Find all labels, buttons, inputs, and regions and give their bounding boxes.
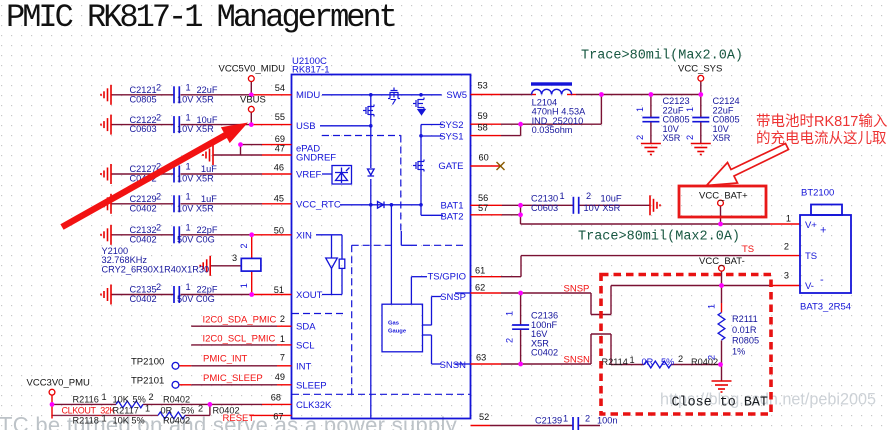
svg-text:1: 1 xyxy=(505,311,515,316)
svg-text:1: 1 xyxy=(145,404,150,414)
svg-text:GATE: GATE xyxy=(438,161,463,172)
svg-text:10V X5R: 10V X5R xyxy=(177,94,214,104)
svg-text:SNSN: SNSN xyxy=(440,360,467,371)
svg-text:68: 68 xyxy=(271,393,281,403)
svg-text:XIN: XIN xyxy=(296,230,312,241)
svg-text:R2116: R2116 xyxy=(73,394,99,404)
svg-text:1: 1 xyxy=(186,162,191,172)
svg-text:56: 56 xyxy=(478,193,488,203)
svg-text:2: 2 xyxy=(784,242,789,252)
svg-text:10K: 10K xyxy=(113,394,130,404)
svg-text:SYS1: SYS1 xyxy=(439,132,463,143)
svg-text:TS/GPIO: TS/GPIO xyxy=(427,271,466,282)
svg-text:R0402: R0402 xyxy=(163,394,190,404)
svg-text:67: 67 xyxy=(273,412,283,422)
svg-text:59: 59 xyxy=(478,111,488,121)
svg-text:0R: 0R xyxy=(161,406,173,416)
svg-text:63: 63 xyxy=(476,353,486,363)
svg-text:2: 2 xyxy=(156,282,161,292)
svg-text:XOUT: XOUT xyxy=(296,290,323,301)
svg-text:C0402: C0402 xyxy=(531,348,558,358)
svg-text:V+: V+ xyxy=(805,220,817,231)
svg-text:VCC_BAT+: VCC_BAT+ xyxy=(699,191,748,202)
svg-text:INT: INT xyxy=(296,361,312,372)
svg-text:2: 2 xyxy=(685,135,695,140)
svg-text:CRY2_6R90X1R40X1R30: CRY2_6R90X1R40X1R30 xyxy=(102,264,210,274)
svg-text:2: 2 xyxy=(678,354,683,364)
svg-text:10V X5R: 10V X5R xyxy=(177,203,214,213)
svg-text:SW5: SW5 xyxy=(446,90,467,101)
svg-text:BT2100: BT2100 xyxy=(801,188,834,199)
svg-text:60: 60 xyxy=(479,153,489,163)
svg-text:带电池时RK817输入: 带电池时RK817输入 xyxy=(756,113,887,130)
svg-text:C0402: C0402 xyxy=(130,234,157,244)
svg-text:CLKOUT_32K: CLKOUT_32K xyxy=(62,406,116,416)
svg-text:0R: 0R xyxy=(642,357,654,367)
svg-text:62: 62 xyxy=(475,283,485,293)
svg-text:BAT3_2R54: BAT3_2R54 xyxy=(800,302,851,313)
svg-text:58: 58 xyxy=(478,123,488,133)
svg-text:1: 1 xyxy=(186,83,191,93)
svg-text:1: 1 xyxy=(685,107,695,112)
svg-text:TP2100: TP2100 xyxy=(131,356,164,367)
svg-text:SNSN: SNSN xyxy=(564,355,591,366)
svg-text:+: + xyxy=(820,225,826,237)
svg-text:2: 2 xyxy=(156,83,161,93)
svg-text:0.01R: 0.01R xyxy=(732,325,757,335)
svg-text:Trace>80mil(Max2.0A): Trace>80mil(Max2.0A) xyxy=(581,49,743,64)
svg-text:5%: 5% xyxy=(133,394,146,404)
svg-text:V-: V- xyxy=(805,281,814,292)
svg-text:I2C0_SCL_PMIC: I2C0_SCL_PMIC xyxy=(203,334,276,345)
svg-text:5%: 5% xyxy=(181,406,194,416)
svg-text:SNSP: SNSP xyxy=(564,284,590,295)
svg-text:1: 1 xyxy=(563,414,568,424)
svg-text:2: 2 xyxy=(156,192,161,202)
svg-text:1: 1 xyxy=(707,304,717,309)
svg-text:10V X5R: 10V X5R xyxy=(177,124,214,134)
svg-text:VCC_BAT-: VCC_BAT- xyxy=(699,256,745,267)
svg-text:R2118: R2118 xyxy=(73,416,99,426)
svg-text:3: 3 xyxy=(232,253,237,263)
svg-text:的充电电流从这儿取: 的充电电流从这儿取 xyxy=(756,130,887,147)
svg-text:GNDREF: GNDREF xyxy=(296,153,336,164)
svg-text:1: 1 xyxy=(186,223,191,233)
svg-text:1: 1 xyxy=(560,191,565,201)
svg-text:100n: 100n xyxy=(597,416,617,426)
svg-text:2: 2 xyxy=(505,338,515,343)
svg-text:1: 1 xyxy=(786,214,791,224)
svg-text:51: 51 xyxy=(274,285,284,295)
svg-text:1: 1 xyxy=(102,392,107,402)
svg-text:TS: TS xyxy=(805,251,817,262)
svg-text:61: 61 xyxy=(475,266,485,276)
svg-text:CLK32K: CLK32K xyxy=(296,400,332,411)
svg-text:2: 2 xyxy=(280,314,285,324)
svg-text:7: 7 xyxy=(280,352,285,362)
svg-text:10V X5R: 10V X5R xyxy=(584,203,621,213)
svg-text:VREF: VREF xyxy=(296,170,322,181)
svg-text:VCC5V0_MIDU: VCC5V0_MIDU xyxy=(219,64,286,75)
svg-text:VCC_SYS: VCC_SYS xyxy=(678,64,722,75)
svg-text:X5R: X5R xyxy=(663,133,681,143)
svg-text:R0805: R0805 xyxy=(732,336,759,346)
svg-text:10uF: 10uF xyxy=(601,193,622,203)
svg-text:1: 1 xyxy=(186,112,191,122)
svg-text:1%: 1% xyxy=(732,346,745,356)
svg-text:2: 2 xyxy=(707,355,717,360)
svg-text:TS: TS xyxy=(742,244,754,255)
svg-text:46: 46 xyxy=(274,162,284,172)
svg-text:Trace>80mil(Max2.0A): Trace>80mil(Max2.0A) xyxy=(578,230,740,245)
svg-text:C2139: C2139 xyxy=(535,416,562,426)
svg-text:R0402: R0402 xyxy=(213,406,240,416)
svg-text:53: 53 xyxy=(478,81,488,91)
svg-text:2: 2 xyxy=(635,135,645,140)
svg-text:10K 5%: 10K 5% xyxy=(113,416,145,426)
svg-text:1: 1 xyxy=(102,414,107,424)
svg-text:VBUS: VBUS xyxy=(240,95,266,106)
svg-text:3: 3 xyxy=(784,271,789,281)
svg-text:VCC_RTC: VCC_RTC xyxy=(296,199,341,210)
svg-text:2: 2 xyxy=(149,392,154,402)
svg-text:TP2101: TP2101 xyxy=(131,375,164,386)
svg-text:52: 52 xyxy=(479,412,489,422)
svg-text:2: 2 xyxy=(156,223,161,233)
svg-text:2: 2 xyxy=(198,404,203,414)
svg-text:Close to BAT: Close to BAT xyxy=(672,396,768,411)
svg-text:2: 2 xyxy=(586,191,591,201)
svg-text:MIDU: MIDU xyxy=(296,90,320,101)
svg-text:-: - xyxy=(820,274,824,286)
svg-text:5%: 5% xyxy=(661,357,674,367)
svg-text:1: 1 xyxy=(239,283,249,288)
svg-text:2: 2 xyxy=(156,112,161,122)
svg-text:SLEEP: SLEEP xyxy=(296,380,327,391)
svg-text:Gas: Gas xyxy=(388,321,399,327)
svg-text:49: 49 xyxy=(275,372,285,382)
svg-text:PMIC_INT: PMIC_INT xyxy=(203,354,248,365)
svg-text:0.035ohm: 0.035ohm xyxy=(532,125,573,135)
svg-text:VCC3V0_PMU: VCC3V0_PMU xyxy=(27,378,90,389)
svg-text:55: 55 xyxy=(275,112,285,122)
svg-text:10V X5R: 10V X5R xyxy=(177,174,214,184)
svg-text:C0402: C0402 xyxy=(130,294,157,304)
svg-text:50: 50 xyxy=(274,226,284,236)
svg-text:PMIC_SLEEP: PMIC_SLEEP xyxy=(203,373,263,384)
svg-text:50V C0G: 50V C0G xyxy=(177,294,215,304)
svg-text:BAT1: BAT1 xyxy=(440,200,463,211)
svg-text:50V C0G: 50V C0G xyxy=(177,234,215,244)
svg-text:C0603: C0603 xyxy=(531,203,558,213)
svg-text:1: 1 xyxy=(630,355,635,365)
svg-text:PMIC RK817-1 Managerment: PMIC RK817-1 Managerment xyxy=(6,0,395,36)
svg-text:45: 45 xyxy=(274,193,284,203)
svg-text:R2117: R2117 xyxy=(113,406,139,416)
svg-text:I2C0_SDA_PMIC: I2C0_SDA_PMIC xyxy=(203,315,277,326)
svg-text:SCL: SCL xyxy=(296,340,314,351)
svg-text:R2114: R2114 xyxy=(602,357,628,367)
svg-text:Gauge: Gauge xyxy=(388,329,407,335)
svg-text:SYS2: SYS2 xyxy=(439,120,463,131)
svg-text:2: 2 xyxy=(585,414,590,424)
svg-text:R0402: R0402 xyxy=(163,416,190,426)
svg-text:C2130: C2130 xyxy=(531,193,558,203)
svg-text:57: 57 xyxy=(478,203,488,213)
svg-text:BAT2: BAT2 xyxy=(440,211,463,222)
svg-text:47: 47 xyxy=(275,143,285,153)
svg-text:1: 1 xyxy=(635,107,645,112)
svg-text:RK817-1: RK817-1 xyxy=(292,65,330,76)
svg-text:USB: USB xyxy=(296,121,316,132)
svg-text:2: 2 xyxy=(239,243,249,248)
svg-text:C0402: C0402 xyxy=(130,203,157,213)
svg-text:54: 54 xyxy=(275,83,285,93)
svg-text:C0603: C0603 xyxy=(130,124,157,134)
svg-text:1: 1 xyxy=(280,334,285,344)
svg-text:1: 1 xyxy=(186,282,191,292)
svg-text:1: 1 xyxy=(186,192,191,202)
svg-text:SDA: SDA xyxy=(296,322,316,333)
svg-text:X5R: X5R xyxy=(713,133,731,143)
svg-text:R2111: R2111 xyxy=(732,314,758,324)
svg-text:C0805: C0805 xyxy=(130,94,157,104)
